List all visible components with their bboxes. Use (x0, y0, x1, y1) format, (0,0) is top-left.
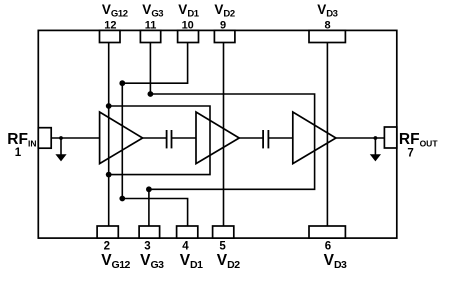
wire RFin pad to amp 1 input (51, 137, 99, 139)
wire amp 3 output to RFout pad (336, 137, 385, 139)
svg-text:7: 7 (407, 148, 413, 160)
wire C2 to amp 3 input (268, 137, 292, 139)
svg-text:2: 2 (104, 240, 110, 252)
svg-text:8: 8 (324, 19, 330, 31)
svg-text:1: 1 (15, 147, 22, 159)
node VG12 lower junction (106, 172, 112, 178)
wire amp 2 output to C2 (239, 137, 263, 139)
pin 1 pad RF input (38, 128, 51, 149)
wire VG3 drop from pin 11 (149, 43, 151, 95)
svg-text:4: 4 (182, 240, 189, 252)
capacitor C2 (263, 130, 268, 148)
svg-text:9: 9 (220, 19, 226, 31)
ground arrow at RF input (55, 154, 66, 161)
pin 12 pad (100, 30, 121, 42)
wire VD1 drop from pin 10 (122, 43, 187, 84)
svg-text:6: 6 (325, 240, 331, 252)
pin 10 pad (178, 30, 199, 42)
pin 9 pad (214, 30, 235, 42)
pin 2 pad (97, 226, 118, 238)
wire VD1 lower rail to pin 4 (122, 199, 187, 227)
pin 6 pad (309, 226, 345, 238)
node VD1 upper junction (119, 80, 125, 86)
package outline (38, 30, 397, 238)
svg-text:11: 11 (145, 19, 157, 31)
node VG3 lower junction (146, 186, 152, 192)
ground stem at RF input (60, 138, 62, 155)
pin 3 pad (139, 226, 160, 238)
op-amp U2 stage 2 (196, 112, 239, 164)
pin 11 pad (140, 30, 160, 42)
wire VG12 vertical pin12 to pin2 (108, 43, 110, 227)
pin 5 pad (213, 226, 234, 238)
node VG12 upper junction (106, 103, 112, 109)
svg-text:10: 10 (182, 19, 194, 31)
svg-text:5: 5 (219, 240, 226, 252)
capacitor C1 (167, 130, 172, 148)
node VD1 lower junction (119, 196, 125, 202)
wire amp 1 output to C1 (143, 137, 167, 139)
wire VG3 upper rail (149, 94, 315, 189)
ground stem at RF output (374, 138, 376, 155)
wire VD2 vertical pin9 to pin5 (223, 43, 225, 227)
node VG3 upper junction (148, 91, 154, 97)
svg-text:12: 12 (104, 19, 116, 31)
pin 8 pad (309, 30, 345, 42)
pin 4 pad (177, 226, 198, 238)
wire VG3 riser to pin 3 (148, 189, 150, 226)
wire VD3 vertical pin8 to pin6 (326, 43, 328, 227)
node RF input junction (59, 136, 63, 140)
wire VD1 vertical (121, 83, 123, 198)
node RF output junction (374, 136, 378, 140)
pin 7 pad RF output (384, 127, 396, 148)
ground arrow at RF output (370, 154, 381, 161)
wire C1 to amp 2 input (172, 137, 197, 139)
svg-text:3: 3 (144, 240, 150, 252)
op-amp U1 stage 1 (100, 112, 143, 164)
wire VG12 upper rail (109, 106, 210, 175)
op-amp U3 stage 3 (293, 112, 336, 164)
